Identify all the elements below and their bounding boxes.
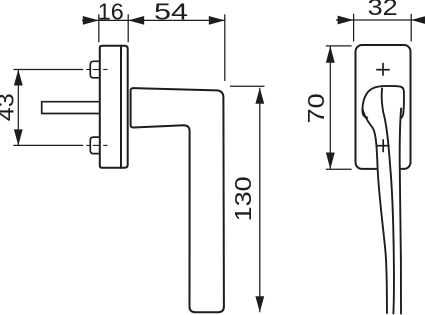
handle grip front view left edge xyxy=(363,109,387,314)
arrow 43 down xyxy=(14,129,23,145)
arrow shared at 128 pointing left xyxy=(128,16,144,25)
screw cross bottom xyxy=(376,139,390,152)
extension line between 16 and 54 xyxy=(127,14,129,42)
arrow 70 down xyxy=(326,153,335,170)
extension line top of grip xyxy=(230,85,265,87)
svg-text:32: 32 xyxy=(368,0,398,20)
dimension line 16-54 xyxy=(82,19,225,21)
extension line bottom screw axis xyxy=(13,144,83,146)
dash-dot bottom screw xyxy=(86,144,107,146)
arrow 130 up xyxy=(255,88,264,104)
screw cross top xyxy=(376,63,390,76)
arrow 32 left xyxy=(338,16,354,25)
arrow 43 up xyxy=(14,70,23,86)
handle grip front view middle ridge xyxy=(382,89,394,314)
svg-text:70: 70 xyxy=(303,93,329,123)
dimension 32 top right xyxy=(336,14,425,42)
extension line top xyxy=(326,45,352,47)
screw bottom xyxy=(90,137,99,154)
svg-text:16: 16 xyxy=(98,0,124,25)
dash-dot top screw xyxy=(86,69,107,71)
arrow outside-left at 16 xyxy=(83,16,99,25)
handle grip front view white body fill xyxy=(363,109,402,314)
arrow 70 up xyxy=(326,46,335,63)
spindle xyxy=(42,102,100,114)
dimension 43 left xyxy=(13,70,107,146)
dimension 130 xyxy=(230,86,265,312)
handle neck front view xyxy=(362,86,403,118)
rosette plate side view xyxy=(100,46,128,168)
svg-text:54: 54 xyxy=(154,0,188,25)
extension line left xyxy=(353,14,355,42)
svg-text:130: 130 xyxy=(230,176,256,221)
arrow 32 right xyxy=(411,16,425,24)
extension line right xyxy=(410,14,412,42)
extension line left of 16 xyxy=(98,14,100,42)
dimension 16 and 54 top xyxy=(82,14,225,81)
extension line top screw axis xyxy=(13,69,83,71)
extension line right of 54 xyxy=(224,14,226,81)
dimension line 43 xyxy=(17,70,19,146)
handle grip front view right edge xyxy=(400,109,401,314)
arrow 130 down xyxy=(255,296,264,312)
dimension line 70 xyxy=(329,46,331,169)
svg-text:43: 43 xyxy=(0,93,19,121)
dimension line 32 xyxy=(336,19,425,21)
arrow at 54 right pointing right xyxy=(209,16,225,25)
dimension line 130 xyxy=(259,88,261,312)
screw top xyxy=(90,61,99,78)
rosette front view xyxy=(356,45,411,169)
extension line bottom xyxy=(326,168,352,170)
handle neck and grip side view xyxy=(131,88,224,312)
dimension 70 right view xyxy=(326,46,352,169)
